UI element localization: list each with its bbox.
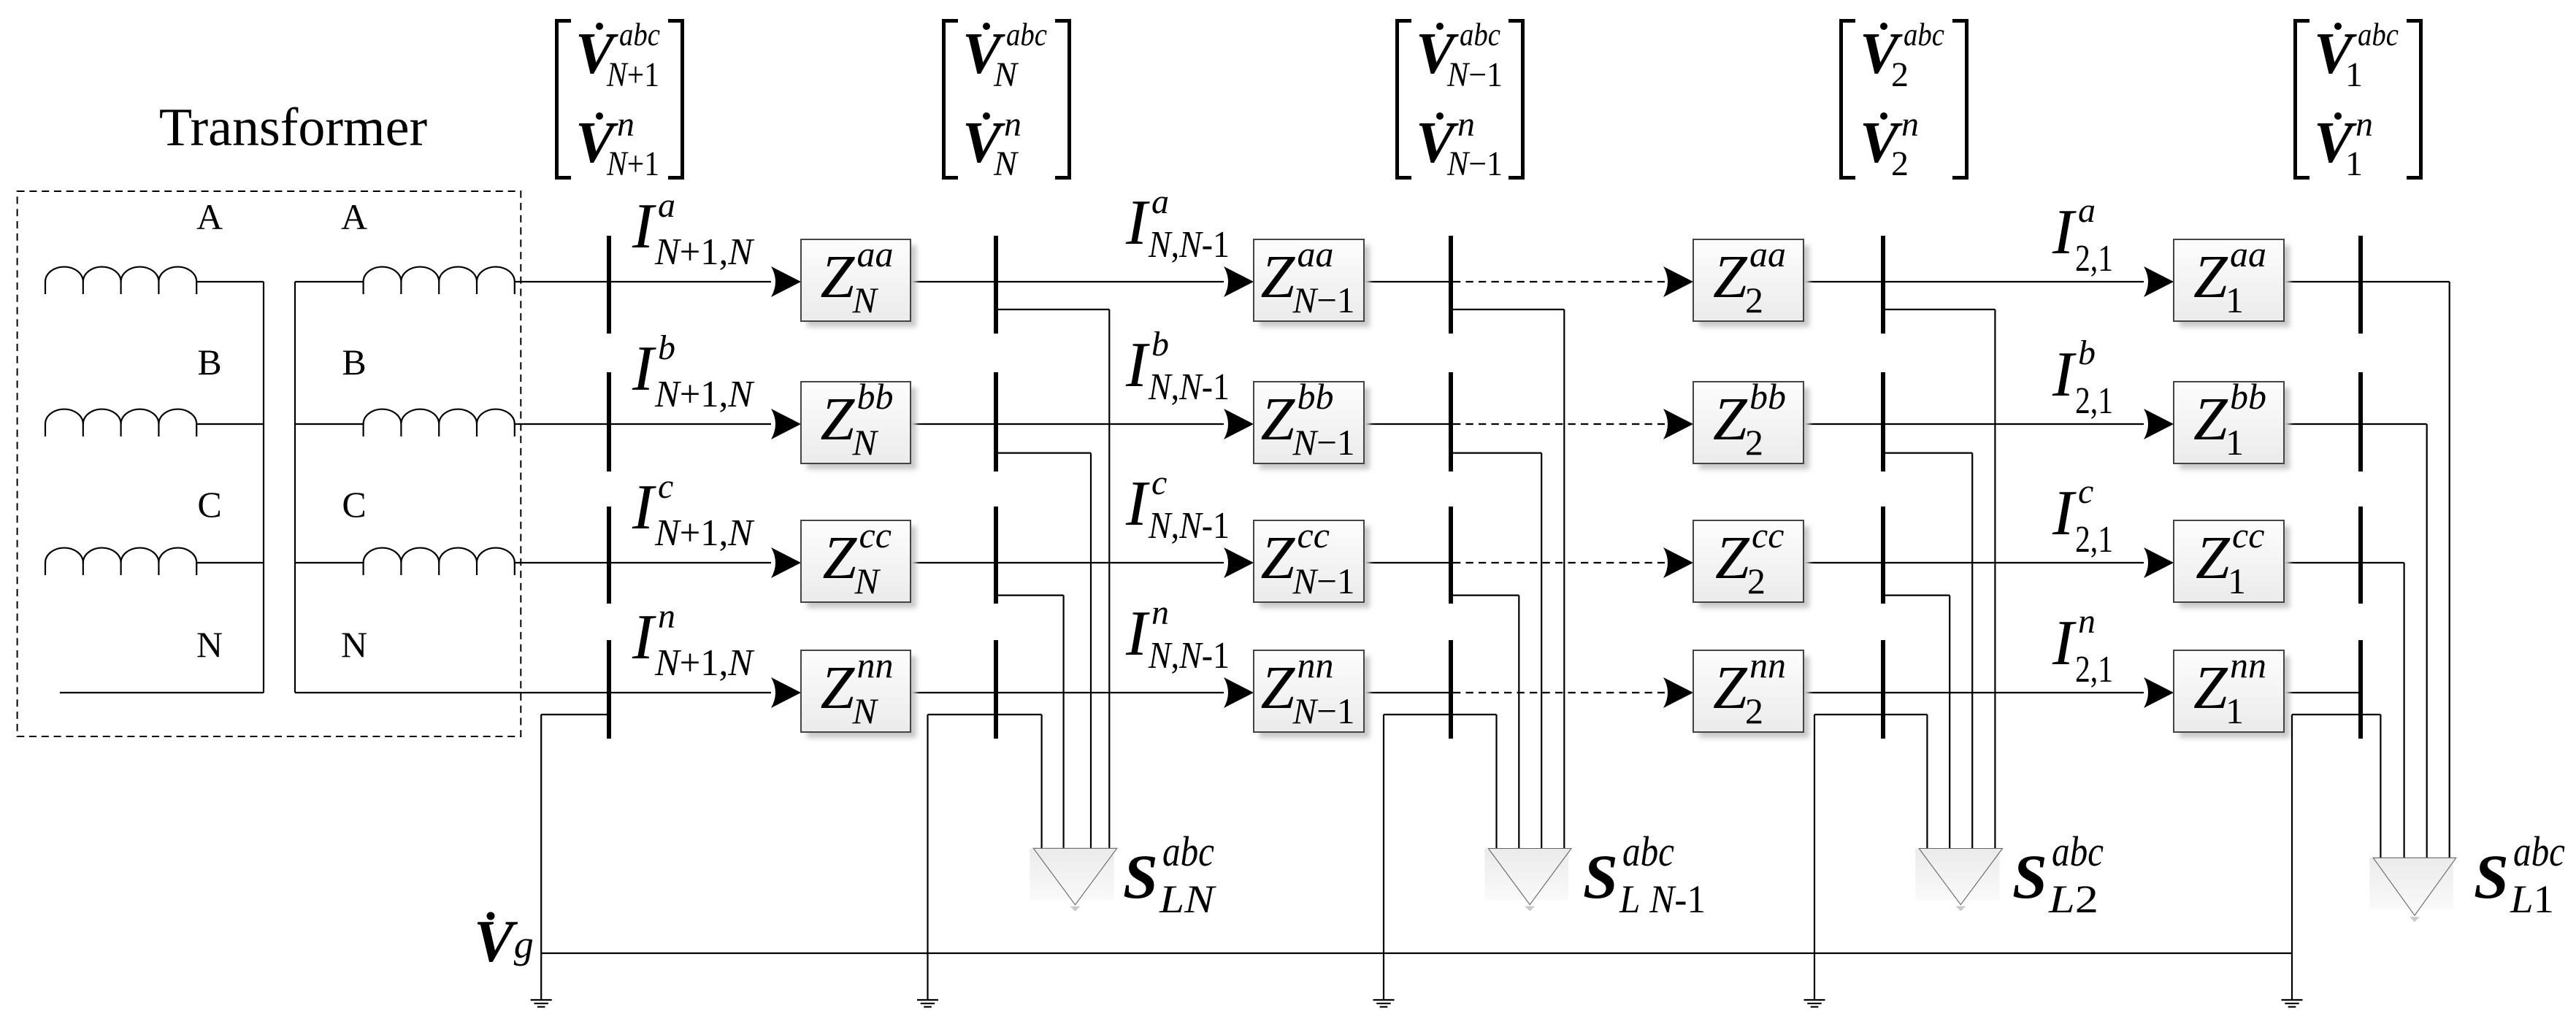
svg-text:N: N <box>196 624 223 665</box>
svg-text:Z: Z <box>1261 385 1296 453</box>
svg-text:c: c <box>2078 472 2093 511</box>
svg-text:Z: Z <box>1715 524 1750 592</box>
svg-text:Z: Z <box>2193 654 2228 722</box>
svg-text:2: 2 <box>1745 422 1763 463</box>
svg-text:LN: LN <box>1159 877 1217 921</box>
svg-text:b: b <box>2078 334 2096 372</box>
svg-text:Z: Z <box>1713 243 1748 311</box>
svg-text:C: C <box>342 484 366 525</box>
svg-text:b: b <box>1151 325 1169 363</box>
svg-text:bb: bb <box>1749 376 1786 417</box>
svg-text:2: 2 <box>1747 561 1766 601</box>
svg-text:a: a <box>658 186 675 225</box>
svg-text:S: S <box>1123 842 1158 912</box>
svg-text:abc: abc <box>1622 828 1674 875</box>
svg-text:Z: Z <box>1261 654 1296 722</box>
svg-text:2,1: 2,1 <box>2075 649 2113 690</box>
svg-text:a: a <box>1151 182 1169 221</box>
svg-text:N: N <box>852 690 879 731</box>
svg-text:L1: L1 <box>2510 877 2554 921</box>
svg-text:aa: aa <box>857 234 894 274</box>
svg-text:N,N-1: N,N-1 <box>1148 635 1230 677</box>
svg-text:Z: Z <box>1261 524 1296 592</box>
svg-text:S: S <box>2474 842 2509 912</box>
svg-text:A: A <box>341 196 367 237</box>
svg-text:1: 1 <box>2228 561 2246 601</box>
svg-text:2: 2 <box>1891 145 1909 183</box>
svg-text:2: 2 <box>1745 280 1763 320</box>
svg-text:N: N <box>852 280 879 320</box>
svg-text:Z: Z <box>823 524 858 592</box>
svg-text:n: n <box>658 597 675 636</box>
svg-text:bb: bb <box>2230 376 2266 417</box>
svg-text:1: 1 <box>2226 690 2244 731</box>
svg-text:abc: abc <box>1006 17 1047 53</box>
svg-text:N: N <box>854 561 881 601</box>
svg-text:1: 1 <box>2226 280 2244 320</box>
svg-text:I: I <box>632 602 656 673</box>
svg-text:2: 2 <box>1745 690 1763 731</box>
svg-text:cc: cc <box>859 515 892 555</box>
svg-text:L N-1: L N-1 <box>1619 877 1706 921</box>
svg-text:B: B <box>342 342 366 382</box>
svg-text:1: 1 <box>2345 55 2363 94</box>
svg-text:I: I <box>1125 188 1150 258</box>
svg-text:c: c <box>1151 463 1167 502</box>
svg-text:N: N <box>341 624 367 665</box>
svg-text:B: B <box>197 342 221 382</box>
svg-text:aa: aa <box>1297 234 1334 274</box>
svg-text:N+1,N: N+1,N <box>654 374 755 415</box>
svg-text:L2: L2 <box>2048 877 2098 921</box>
svg-text:Z: Z <box>2193 243 2228 311</box>
svg-text:a: a <box>2078 191 2096 230</box>
svg-text:n: n <box>2078 602 2096 641</box>
svg-text:N+1,N: N+1,N <box>654 231 755 273</box>
svg-text:N−1: N−1 <box>1292 422 1355 463</box>
svg-text:abc: abc <box>619 17 660 53</box>
svg-text:N−1: N−1 <box>1292 280 1355 320</box>
svg-text:N+1: N+1 <box>606 55 659 94</box>
svg-text:c: c <box>658 467 673 506</box>
svg-text:2,1: 2,1 <box>2075 238 2113 280</box>
svg-text:abc: abc <box>2052 828 2104 875</box>
svg-text:N+1,N: N+1,N <box>654 642 755 684</box>
svg-text:N−1: N−1 <box>1446 145 1503 183</box>
svg-text:Transformer: Transformer <box>159 98 427 158</box>
svg-text:S: S <box>2012 842 2047 912</box>
svg-text:cc: cc <box>1752 515 1784 555</box>
svg-text:Z: Z <box>821 654 856 722</box>
svg-text:2,1: 2,1 <box>2075 380 2113 422</box>
svg-text:nn: nn <box>1297 644 1334 685</box>
svg-text:Z: Z <box>1713 654 1748 722</box>
svg-text:Z: Z <box>1713 385 1748 453</box>
svg-text:N−1: N−1 <box>1446 55 1503 94</box>
svg-text:n: n <box>617 105 635 144</box>
svg-text:bb: bb <box>857 376 894 417</box>
svg-text:bb: bb <box>1297 376 1334 417</box>
svg-text:n: n <box>2355 105 2373 144</box>
svg-text:abc: abc <box>1904 17 1944 53</box>
svg-text:abc: abc <box>2358 17 2399 53</box>
svg-text:2,1: 2,1 <box>2075 519 2113 561</box>
svg-text:I: I <box>2052 608 2077 679</box>
svg-text:I: I <box>1125 330 1150 401</box>
svg-text:n: n <box>1457 105 1475 144</box>
svg-text:abc: abc <box>1162 828 1214 875</box>
svg-text:Z: Z <box>821 243 856 311</box>
svg-text:n: n <box>1901 105 1919 144</box>
svg-text:aa: aa <box>1749 234 1786 274</box>
svg-text:I: I <box>1125 469 1150 539</box>
svg-text:A: A <box>196 196 223 237</box>
svg-text:N: N <box>993 145 1019 183</box>
svg-text:cc: cc <box>1297 515 1330 555</box>
svg-text:N+1,N: N+1,N <box>654 512 755 554</box>
svg-text:nn: nn <box>1749 644 1786 685</box>
svg-text:N−1: N−1 <box>1292 690 1355 731</box>
svg-text:2: 2 <box>1891 55 1909 94</box>
svg-text:1: 1 <box>2345 145 2363 183</box>
svg-text:N+1: N+1 <box>606 145 659 183</box>
svg-text:N−1: N−1 <box>1292 561 1355 601</box>
svg-text:N,N-1: N,N-1 <box>1148 224 1230 266</box>
svg-text:N: N <box>852 422 879 463</box>
svg-text:1: 1 <box>2226 422 2244 463</box>
svg-text:I: I <box>632 472 656 543</box>
svg-text:I: I <box>2052 197 2077 268</box>
svg-text:abc: abc <box>2513 828 2565 875</box>
svg-text:n: n <box>1004 105 1021 144</box>
svg-text:C: C <box>197 484 221 525</box>
svg-text:Z: Z <box>1261 243 1296 311</box>
svg-text:nn: nn <box>2230 644 2266 685</box>
svg-text:nn: nn <box>857 644 894 685</box>
svg-text:N,N-1: N,N-1 <box>1148 366 1230 408</box>
svg-text:I: I <box>2052 478 2077 549</box>
svg-text:b: b <box>658 328 675 367</box>
svg-text:I: I <box>1125 598 1150 669</box>
svg-text:Z: Z <box>821 385 856 453</box>
svg-text:I: I <box>632 191 656 262</box>
svg-text:Z: Z <box>2196 524 2231 592</box>
svg-text:N: N <box>993 55 1019 94</box>
svg-text:Z: Z <box>2193 385 2228 453</box>
svg-text:N,N-1: N,N-1 <box>1148 505 1230 547</box>
svg-text:S: S <box>1583 842 1618 912</box>
svg-text:n: n <box>1151 593 1169 632</box>
svg-text:abc: abc <box>1460 17 1500 53</box>
svg-text:aa: aa <box>2230 234 2266 274</box>
svg-text:I: I <box>632 334 656 404</box>
svg-text:I: I <box>2052 339 2077 410</box>
svg-text:cc: cc <box>2232 515 2264 555</box>
